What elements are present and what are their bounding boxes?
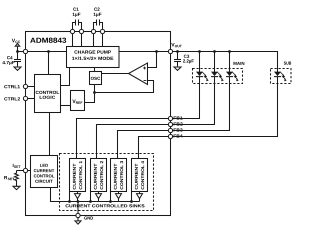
junction sink4 — [130, 200, 133, 203]
oscillator block OSC — [90, 72, 102, 85]
label C2 — [94, 8, 99, 11]
wire VCC to control logic — [48, 52, 50, 75]
capacitor C2 — [94, 20, 103, 30]
wire LED2 anode — [214, 52, 216, 73]
wire OSC bottom stub — [94, 85, 96, 93]
label C1 value — [73, 13, 81, 17]
wire VCC internal rail — [28, 51, 67, 53]
wire FB4 internal — [139, 137, 169, 159]
control logic block — [35, 75, 61, 113]
wire pin stub CP4 — [102, 34, 104, 47]
pin CTRL1 — [23, 84, 27, 88]
IC boundary ADM8843 — [26, 32, 171, 216]
junction C3 — [176, 50, 179, 53]
wire to opamp plus input — [148, 52, 157, 68]
current control 4 block — [132, 159, 148, 192]
current control 1 block — [70, 159, 86, 192]
junction sink1 — [68, 200, 71, 203]
label C1 — [73, 8, 78, 11]
wire sink4 corner stub — [131, 192, 133, 202]
junction sink3 — [109, 200, 112, 203]
wire VCC to pin — [18, 51, 24, 53]
label C3 value — [183, 59, 194, 63]
pin FB3 — [168, 128, 172, 132]
pin VOUT — [168, 49, 172, 53]
wire opamp minus input — [95, 81, 154, 93]
ground below C3 — [174, 67, 181, 70]
label FB2 — [174, 122, 183, 125]
wire CTRL2 — [28, 98, 35, 100]
capacitor C3 — [174, 52, 181, 68]
LED D2 — [211, 72, 224, 82]
wire LED2 cathode to FB2 — [173, 77, 215, 125]
wire GND drop — [77, 202, 79, 214]
wire control logic to VREF — [61, 105, 71, 107]
label FB3 — [174, 128, 183, 131]
junction VCC rail — [47, 50, 50, 53]
LED D1 — [196, 72, 209, 82]
wire VREF to node — [85, 93, 95, 103]
junction LED2 — [213, 50, 216, 53]
wire LED4 cathode to FB4 — [173, 77, 278, 137]
pin CAP2 — [79, 29, 83, 33]
wire sink1 corner stub — [69, 192, 71, 202]
label RSET — [4, 176, 14, 180]
pin CAP3 — [91, 29, 95, 33]
sink arrow 2 — [96, 192, 102, 202]
pin CAP1 — [70, 29, 74, 33]
label CTRL2 — [4, 97, 20, 100]
wire charge pump output rail — [119, 51, 169, 53]
SUB LED dashed box — [271, 62, 292, 84]
wire ISET external — [17, 170, 24, 172]
label GND — [84, 217, 93, 220]
MAIN LEDs dashed box — [193, 62, 245, 84]
wire sink2 corner stub — [90, 192, 92, 202]
wire opamp output to OSC — [102, 73, 129, 75]
LED current control circuit block — [31, 156, 58, 188]
pin ISET — [23, 168, 27, 172]
ground below RSET — [13, 186, 20, 189]
ground symbol GND — [75, 218, 81, 225]
pin CAP4 — [100, 29, 104, 33]
label FB1 — [174, 116, 183, 119]
wire FB3 internal — [118, 131, 169, 159]
wire pin stub CP3 — [93, 34, 95, 47]
label C3 — [184, 55, 189, 58]
label C4 value — [2, 61, 14, 65]
label CTRL1 — [4, 85, 20, 88]
label VCC — [12, 39, 20, 43]
sink arrow 3 — [116, 192, 122, 202]
label ISET — [13, 164, 21, 168]
wire LED1 anode — [199, 52, 201, 73]
charge pump block — [67, 47, 120, 68]
wire VCC supply stub — [15, 43, 19, 51]
resistor RSET — [15, 171, 19, 187]
wire pin stub CP1 — [72, 34, 74, 47]
op-amp error amplifier — [129, 63, 148, 85]
capacitor C4 — [14, 52, 21, 68]
label C2 value — [94, 13, 102, 17]
wire ISET to block — [28, 170, 31, 172]
wire FB1 internal — [77, 119, 169, 159]
Vref block — [71, 91, 85, 111]
label ADM8843 — [30, 38, 66, 43]
current controlled sinks dashed box — [60, 154, 154, 211]
sink arrow 1 — [75, 192, 81, 202]
LED D3 — [226, 72, 239, 82]
pin FB2 — [168, 122, 172, 126]
wire LED3 cathode to FB3 — [173, 77, 230, 131]
pin FB4 — [168, 134, 172, 138]
label FB4 — [174, 134, 183, 137]
junction LED3 — [228, 50, 231, 53]
pin GND — [76, 213, 80, 217]
capacitor C1 — [73, 20, 82, 30]
wire CTRL1 — [28, 86, 35, 88]
wire OSC top stub — [94, 68, 96, 72]
junction LED1 — [198, 50, 201, 53]
pin VCC — [23, 49, 27, 53]
wire charge pump to control logic — [61, 68, 70, 86]
junction VCC C4 — [16, 50, 19, 53]
ground below C4 — [14, 67, 21, 70]
sink arrow 4 — [137, 192, 143, 202]
wire LED control to sink rail — [51, 188, 140, 202]
wire FB2 internal — [97, 125, 169, 159]
pin FB1 — [168, 116, 172, 120]
label C4 — [7, 56, 13, 59]
label VOUT — [171, 43, 182, 47]
wire LED1 cathode to FB1 — [173, 77, 200, 119]
junction GND rail — [77, 200, 80, 203]
junction vref node — [93, 91, 96, 94]
pin CTRL2 — [23, 96, 27, 100]
current control 3 block — [111, 159, 127, 192]
junction opamp tap — [155, 50, 158, 53]
wire sink3 corner stub — [110, 192, 112, 202]
wire VOUT rail external — [173, 52, 278, 73]
wire LED3 anode — [229, 52, 231, 73]
wire pin stub CP2 — [81, 34, 83, 47]
LED D4 SUB — [274, 72, 287, 82]
wire control logic to LED current control — [49, 113, 51, 156]
current control 2 block — [91, 159, 107, 192]
junction sink2 — [89, 200, 92, 203]
